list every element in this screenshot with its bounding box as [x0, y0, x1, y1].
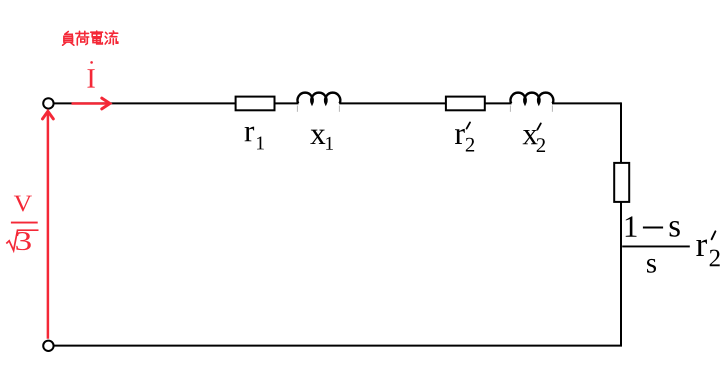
label V/sqrt(3) [6, 196, 38, 251]
wire top: r2' to x2' [485, 102, 512, 104]
kanji 流 [105, 31, 118, 44]
red voltage arrow [43, 111, 54, 338]
ghost tick x2 left [509, 106, 511, 112]
resistor r2' [446, 97, 485, 111]
wire top: r1 to x1 [275, 102, 299, 104]
label I-dot (current) [87, 61, 94, 87]
red current arrow [72, 98, 110, 109]
terminal bottom-left [43, 341, 53, 351]
label x2' [523, 123, 545, 152]
wire right upper [620, 102, 622, 163]
kanji 負 [63, 32, 74, 46]
label fraction (1-s)/s [622, 216, 690, 272]
ghost tick x2 right [551, 106, 553, 112]
wire top: terminal to r1 [54, 102, 236, 104]
resistor r1 [236, 97, 275, 111]
label r2' (load branch) [696, 231, 719, 266]
kanji 荷 [76, 31, 89, 45]
label 負荷電流 (red kanji) [63, 31, 118, 45]
resistor (1-s)/s r2' [614, 163, 629, 202]
label x1 [310, 130, 333, 150]
ghost tick x1 left [296, 106, 298, 112]
inductor x2' [511, 93, 554, 104]
wire top: x2' to right corner [552, 102, 621, 104]
wire bottom [54, 345, 622, 347]
ghost tick x1 right [338, 106, 340, 112]
wire top: x1 to r2' [339, 102, 446, 104]
terminal top-left [43, 98, 53, 108]
inductor x1 [298, 93, 341, 104]
label r1 [245, 127, 264, 150]
wire right lower [620, 202, 622, 347]
kanji 電 [91, 31, 103, 44]
label r2' [455, 122, 474, 151]
